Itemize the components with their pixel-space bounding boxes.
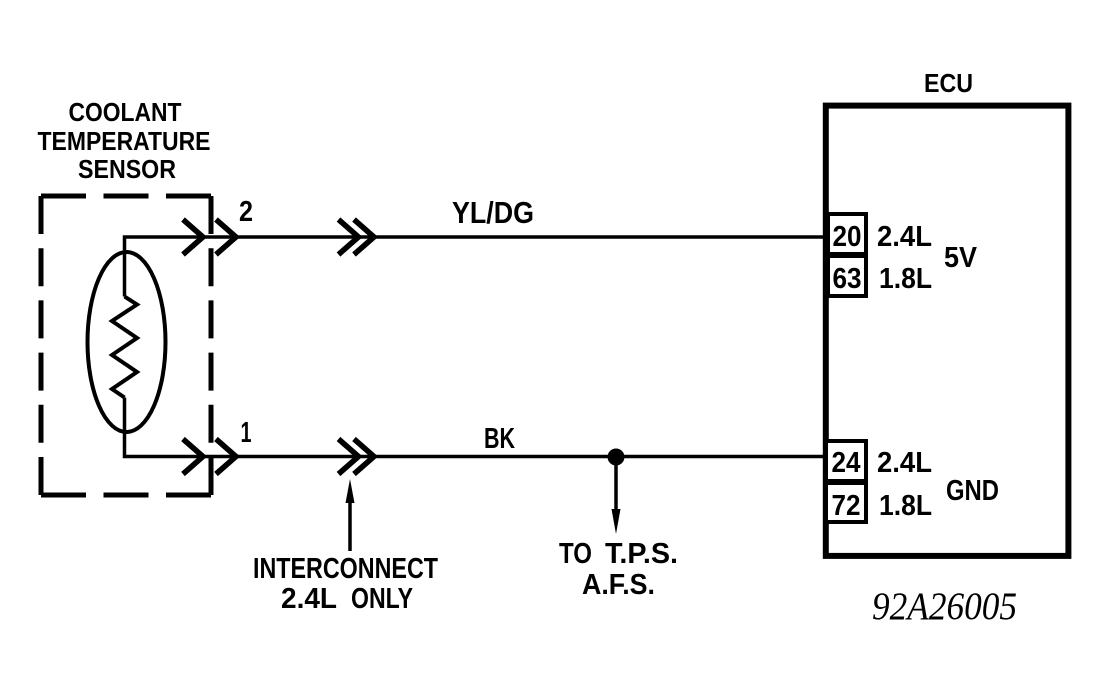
svg-text:2.4L: 2.4L xyxy=(877,447,932,479)
interconnect arrow up xyxy=(346,479,355,551)
svg-text:2: 2 xyxy=(239,196,253,228)
svg-text:A.F.S.: A.F.S. xyxy=(582,569,655,601)
svg-text:SENSOR: SENSOR xyxy=(78,154,176,184)
resistor element inside sensor xyxy=(112,297,137,398)
svg-text:ONLY: ONLY xyxy=(351,583,413,615)
svg-text:92A26005: 92A26005 xyxy=(872,585,1017,628)
ECU box xyxy=(826,106,1069,556)
svg-text:72: 72 xyxy=(832,490,861,522)
svg-text:1: 1 xyxy=(241,417,252,449)
svg-text:TEMPERATURE: TEMPERATURE xyxy=(38,126,211,156)
label TO T.P.S. xyxy=(559,538,678,570)
pin box 72 xyxy=(826,483,866,522)
svg-text:24: 24 xyxy=(832,447,861,479)
pin box 63 xyxy=(828,256,866,296)
arrow down to T.P.S./A.F.S. xyxy=(612,457,621,534)
svg-text:INTERCONNECT: INTERCONNECT xyxy=(253,553,438,585)
svg-text:2.4L: 2.4L xyxy=(281,583,337,615)
sensor ellipse body xyxy=(88,252,166,432)
svg-text:ECU: ECU xyxy=(924,68,973,98)
svg-text:COOLANT: COOLANT xyxy=(69,97,182,127)
label 2.4L ONLY xyxy=(281,583,413,615)
svg-text:TO: TO xyxy=(559,538,592,570)
junction node on BK wire xyxy=(608,449,625,466)
interconnect chevrons, wire 1 xyxy=(339,439,375,474)
interconnect chevrons, wire 2 xyxy=(339,220,375,255)
svg-text:5V: 5V xyxy=(944,242,978,274)
label: COOLANT TEMPERATURE SENSOR xyxy=(38,97,211,184)
wire pin 1 to ECU (BK) xyxy=(125,398,825,457)
svg-text:GND: GND xyxy=(946,475,999,507)
svg-text:20: 20 xyxy=(833,221,862,253)
svg-text:BK: BK xyxy=(484,423,515,455)
svg-text:T.P.S.: T.P.S. xyxy=(605,538,678,570)
connector chevrons at sensor, wire 1 xyxy=(183,439,236,474)
connector chevrons at sensor, wire 2 xyxy=(183,220,236,255)
pin box 24 xyxy=(826,441,866,481)
pin box 20 xyxy=(828,214,866,254)
svg-text:YL/DG: YL/DG xyxy=(452,195,534,230)
svg-text:2.4L: 2.4L xyxy=(877,221,932,253)
svg-text:63: 63 xyxy=(833,263,862,295)
sensor boundary dashed box xyxy=(41,196,211,495)
svg-text:1.8L: 1.8L xyxy=(879,490,932,522)
svg-text:1.8L: 1.8L xyxy=(879,263,932,295)
wire pin 2 to ECU (YL/DG) xyxy=(125,237,825,297)
